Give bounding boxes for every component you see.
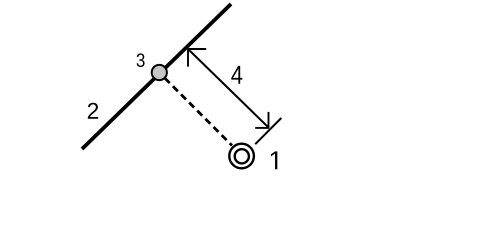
label 3 xyxy=(137,53,145,67)
label 1 xyxy=(271,151,277,169)
arrowhead at point end: vertical barb xyxy=(268,112,270,128)
point 1 (target point, double circle) outer ring xyxy=(229,144,254,169)
node 3 (station on line, gray circle) xyxy=(152,65,167,80)
arrowhead at line end: horizontal barb xyxy=(188,48,206,50)
point 1 inner ring xyxy=(235,149,249,163)
dimension arrow 4: shaft xyxy=(188,49,268,127)
label 2 xyxy=(88,103,98,119)
wire: dashed offset line from node 3 to point 1 xyxy=(165,78,232,145)
label 4 xyxy=(231,66,242,84)
line 2 (reference line, thick diagonal) xyxy=(82,4,231,149)
tick parallel to line through arrow tip at point 1 xyxy=(255,118,281,144)
arrowhead at point end: horizontal barb xyxy=(255,127,269,129)
arrowhead at line end: vertical barb xyxy=(187,49,189,67)
